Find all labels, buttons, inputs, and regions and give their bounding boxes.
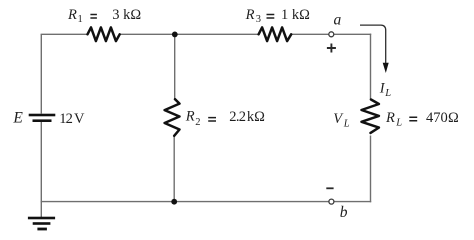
svg-text:L: L — [395, 118, 402, 129]
svg-text:L: L — [384, 88, 391, 99]
svg-text:V: V — [74, 111, 85, 127]
current arrow IL — [360, 25, 389, 73]
node a terminal circle — [329, 32, 334, 37]
label R3 = 1 kOhm — [245, 7, 311, 25]
label VL — [333, 111, 350, 130]
svg-text:R: R — [67, 7, 77, 23]
resistor R2 — [165, 99, 180, 136]
wire bottom horizontal segment 2 (terminal b to right corner) — [334, 201, 371, 203]
svg-text:kΩ: kΩ — [247, 109, 265, 125]
svg-text:R: R — [385, 110, 395, 126]
resistor R1 — [88, 27, 120, 41]
svg-text:Ω: Ω — [448, 110, 459, 126]
label R1 = 3 kOhm — [67, 7, 141, 25]
svg-text:2.2: 2.2 — [229, 109, 245, 125]
node b terminal circle — [329, 199, 334, 204]
resistor R3 — [259, 27, 292, 41]
wire left vertical bottom (battery to bottom wire and ground stub) — [40, 121, 42, 217]
svg-text:3 kΩ: 3 kΩ — [112, 7, 141, 23]
svg-text:b: b — [340, 204, 348, 221]
battery E — [29, 114, 56, 122]
ground — [28, 217, 55, 231]
svg-text:1: 1 — [78, 14, 83, 25]
svg-text:R: R — [245, 7, 255, 23]
svg-text:2: 2 — [195, 117, 200, 128]
junction dot bottom (R2 to bottom wire) — [171, 199, 177, 205]
svg-text:E: E — [12, 110, 23, 127]
wire top horizontal segment 2 (R1 to R3 through junction) — [120, 33, 259, 35]
wire top horizontal segment 1 (corner to R1) — [41, 33, 88, 35]
svg-text:a: a — [334, 11, 342, 28]
svg-text:470: 470 — [426, 110, 448, 126]
label IL — [379, 81, 391, 99]
svg-text:1 kΩ: 1 kΩ — [281, 7, 310, 23]
svg-text:12: 12 — [59, 111, 72, 127]
wire top horizontal segment 4 (terminal a to right corner) — [334, 33, 371, 35]
label RL = 470 Ohm — [385, 110, 459, 129]
svg-text:L: L — [343, 118, 350, 129]
wire left vertical top (battery to top-left corner) — [40, 34, 42, 113]
svg-text:R: R — [185, 109, 195, 125]
wire R2 branch upper (junction to R2) — [174, 34, 176, 99]
resistor RL — [362, 100, 379, 133]
minus sign — [326, 187, 333, 189]
wire right vertical top (corner down to RL) — [370, 34, 372, 100]
wire R2 branch lower (R2 to bottom junction) — [173, 136, 175, 202]
label R2 = 2.2 kOhm — [185, 109, 265, 129]
svg-text:3: 3 — [256, 14, 261, 25]
plus sign — [327, 44, 336, 53]
wire bottom horizontal segment 1 (left corner to terminal b) — [41, 201, 329, 203]
wire top horizontal segment 3 (R3 to terminal a) — [291, 33, 328, 35]
junction dot top (node between R1 and R3) — [172, 32, 178, 38]
wire right vertical bottom (RL to bottom wire) — [370, 136, 372, 203]
